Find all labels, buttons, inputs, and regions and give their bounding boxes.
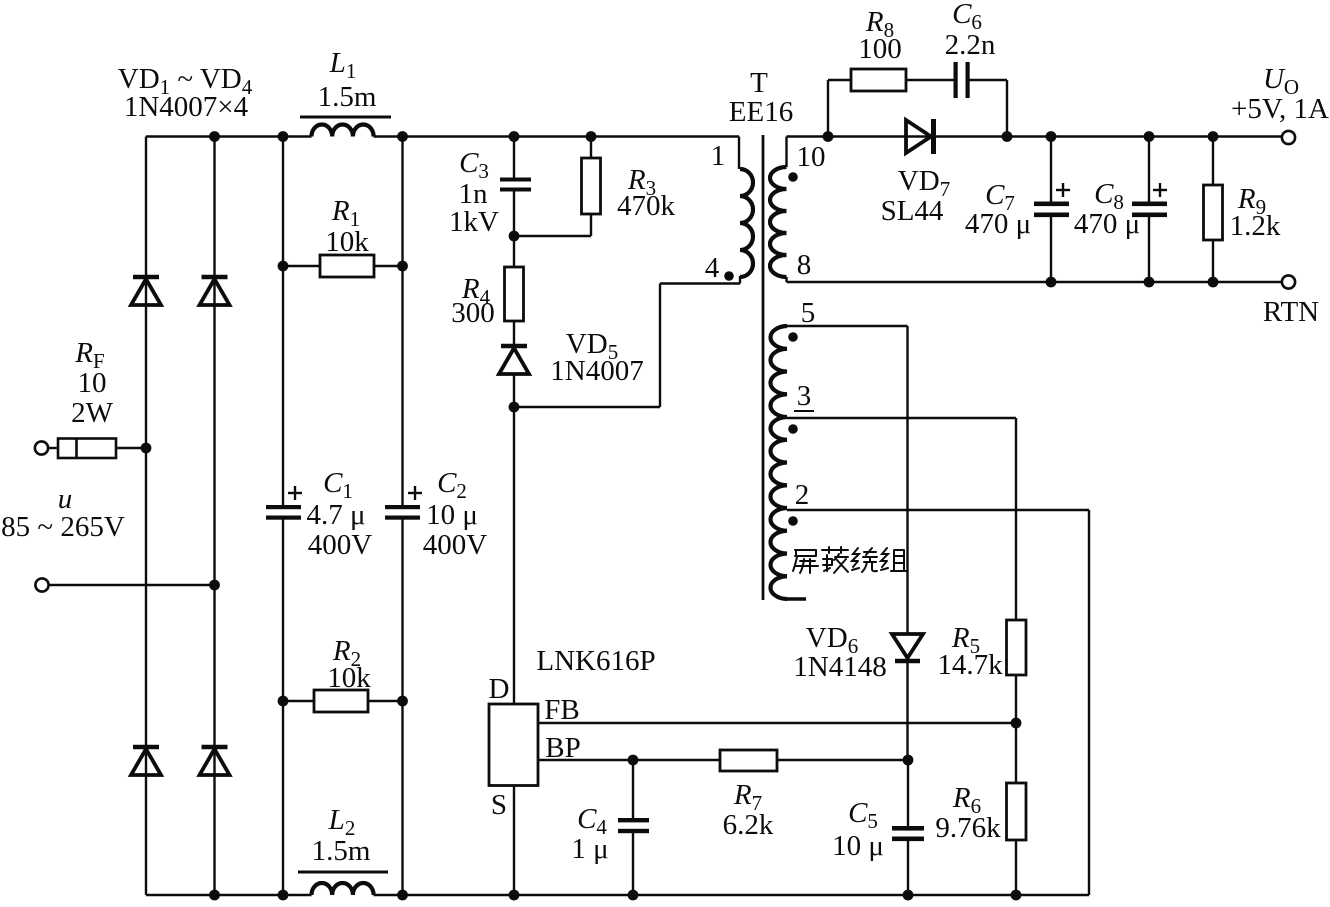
wire shield winding open end bbox=[787, 597, 806, 601]
wire pin5 tap bbox=[787, 325, 908, 327]
svg-text:400V: 400V bbox=[308, 529, 373, 561]
junction R2 left bbox=[278, 696, 289, 707]
svg-text:470 μ: 470 μ bbox=[965, 208, 1031, 240]
svg-text:1N4148: 1N4148 bbox=[793, 651, 886, 683]
capacitor C8 bottom plate bbox=[1132, 213, 1167, 218]
wire R1 right lead bbox=[374, 265, 403, 267]
junction BP / C4 bbox=[628, 755, 639, 766]
wire C4 bottom lead bbox=[632, 833, 634, 895]
resistor R8 bbox=[851, 69, 906, 91]
wire R6 top lead bbox=[1015, 723, 1017, 783]
wire C1 rail upper bbox=[282, 137, 284, 508]
phase dot pin 4 bbox=[724, 271, 734, 281]
capacitor C5 top plate bbox=[892, 826, 924, 831]
svg-text:1.2k: 1.2k bbox=[1230, 210, 1281, 242]
terminal output RTN bbox=[1282, 275, 1295, 288]
svg-text:D: D bbox=[489, 673, 510, 705]
junction C8 top bbox=[1144, 131, 1155, 142]
junction C5 / bottom rail bbox=[903, 890, 914, 901]
wire fuse to bridge node bbox=[116, 447, 146, 449]
inductor L2 core line bbox=[298, 871, 388, 874]
wire R2 left lead bbox=[283, 700, 314, 702]
IC U1 LNK616P body bbox=[489, 704, 538, 786]
wire R9 bottom lead bbox=[1212, 240, 1214, 282]
capacitor C1 bottom plate bbox=[266, 516, 301, 520]
wire R7 to node bbox=[777, 759, 908, 761]
wire bridge right leg bbox=[213, 137, 215, 896]
underline of pin 3 bbox=[794, 410, 814, 412]
svg-text:85 ~ 265V: 85 ~ 265V bbox=[1, 511, 125, 543]
svg-text:14.7k: 14.7k bbox=[937, 649, 1003, 681]
wire R5 bottom lead bbox=[1015, 675, 1017, 723]
wire VD5 to node bbox=[513, 374, 515, 407]
diode VD5 bbox=[499, 346, 529, 374]
resistor R1 bbox=[320, 255, 374, 277]
wire R3 bottom to node bbox=[514, 235, 591, 237]
terminal input live bbox=[35, 441, 48, 454]
junction BP / C5 / VD6 bbox=[903, 755, 914, 766]
wire drain lead down to LNK616P D bbox=[513, 407, 515, 704]
junction C4 / bottom rail bbox=[628, 890, 639, 901]
wire bottom rail right of L2 bbox=[374, 894, 1090, 896]
polarity + of C2 bbox=[408, 486, 422, 500]
label shield winding (Chinese: ping bi rao zu) bbox=[793, 547, 907, 573]
resistor R3 bbox=[582, 158, 601, 214]
wire input live to fuse bbox=[48, 447, 58, 449]
svg-text:10: 10 bbox=[797, 141, 826, 173]
junction R6 / bottom rail bbox=[1011, 890, 1022, 901]
svg-text:10 μ: 10 μ bbox=[832, 830, 884, 862]
wire pin4 winding jog bbox=[739, 276, 741, 284]
capacitor C3 top plate bbox=[500, 178, 531, 182]
svg-text:400V: 400V bbox=[423, 529, 488, 561]
wire C8 bottom lead bbox=[1148, 217, 1150, 282]
phase dot pin 5 bbox=[788, 332, 798, 342]
junction snubber right bbox=[1002, 131, 1013, 142]
capacitor C4 top plate bbox=[618, 818, 649, 822]
wire node to pin4 horizontal bbox=[514, 406, 660, 408]
wire pin5 riser to VD6 bbox=[906, 326, 908, 634]
junction top rail / bridge right bbox=[209, 131, 220, 142]
wire pin2 tap bbox=[787, 509, 1089, 511]
diode VD7 bbox=[906, 119, 934, 154]
transformer auxiliary winding (pins 5-3-2) and shield winding bbox=[771, 326, 787, 599]
resistor R2 bbox=[314, 690, 368, 712]
junction C8 bottom bbox=[1144, 277, 1155, 288]
wire top rail left of L1 bbox=[146, 135, 312, 137]
junction bottom rail / C1 rail bbox=[278, 890, 289, 901]
junction S / bottom rail bbox=[509, 890, 520, 901]
svg-text:9.76k: 9.76k bbox=[935, 812, 1001, 844]
diode VD1 bbox=[131, 277, 161, 305]
svg-text:2.2n: 2.2n bbox=[945, 29, 996, 61]
capacitor C3 bottom plate bbox=[500, 188, 531, 192]
wire pin3 tap bbox=[787, 417, 1016, 419]
wire snubber right riser bbox=[1006, 80, 1008, 137]
svg-text:10: 10 bbox=[78, 367, 107, 399]
svg-text:FB: FB bbox=[544, 694, 579, 726]
wire secondary pin10 lead bbox=[785, 137, 787, 168]
svg-text:10k: 10k bbox=[327, 662, 371, 694]
diode VD2 bbox=[200, 277, 230, 305]
junction top rail / C3 bbox=[509, 131, 520, 142]
wire input neutral to bridge bbox=[49, 584, 215, 586]
wire pin4 vertical bbox=[659, 284, 661, 408]
junction FB / R5 / R6 bbox=[1011, 718, 1022, 729]
svg-text:RTN: RTN bbox=[1263, 296, 1319, 328]
wire C4 top lead bbox=[632, 760, 634, 818]
svg-text:LNK616P: LNK616P bbox=[536, 645, 655, 677]
wire node to R4 bbox=[513, 236, 515, 267]
terminal output +5V bbox=[1282, 131, 1295, 144]
inductor L1 core line bbox=[300, 116, 391, 119]
wire C4 to R7 bbox=[633, 759, 720, 761]
transformer core bbox=[762, 135, 765, 600]
polarity + of C7 bbox=[1056, 183, 1070, 197]
resistor R9 bbox=[1204, 185, 1223, 240]
wire C1 rail lower bbox=[282, 518, 284, 896]
svg-text:T: T bbox=[750, 67, 768, 99]
svg-text:2: 2 bbox=[795, 479, 810, 511]
capacitor C7 top plate bbox=[1034, 202, 1069, 207]
wire RTN rail bbox=[787, 281, 1283, 283]
wire C5 top lead bbox=[907, 760, 909, 826]
wire R6 bottom lead bbox=[1015, 840, 1017, 895]
inductor L2 bbox=[312, 883, 374, 895]
capacitor C6 right plate bbox=[966, 62, 970, 98]
svg-text:1.5m: 1.5m bbox=[312, 835, 371, 867]
wire C3 top lead bbox=[513, 137, 515, 181]
junction bottom rail / bridge right bbox=[209, 890, 220, 901]
svg-text:3: 3 bbox=[797, 380, 812, 412]
svg-text:10 μ: 10 μ bbox=[426, 499, 478, 531]
capacitor C2 bottom plate bbox=[385, 516, 420, 520]
svg-text:1.5m: 1.5m bbox=[318, 81, 377, 113]
wire VD6 to BP node bbox=[906, 661, 908, 760]
svg-text:5: 5 bbox=[801, 297, 816, 329]
wire bridge left leg bbox=[145, 137, 147, 896]
capacitor C8 top plate bbox=[1132, 202, 1167, 207]
wire C3 bottom lead bbox=[513, 192, 515, 237]
junction top rail / C1 rail bbox=[278, 131, 289, 142]
svg-text:470 μ: 470 μ bbox=[1074, 208, 1140, 240]
junction R1 left bbox=[278, 261, 289, 272]
wire pin2 drop to bottom rail bbox=[1088, 510, 1090, 895]
resistor R7 bbox=[720, 750, 777, 771]
junction snubber left bbox=[823, 131, 834, 142]
svg-text:1: 1 bbox=[711, 140, 726, 172]
capacitor C6 left plate bbox=[954, 62, 958, 98]
wire C8 top lead bbox=[1148, 137, 1150, 203]
svg-text:1kV: 1kV bbox=[449, 206, 499, 238]
diode VD6 bbox=[892, 634, 923, 661]
junction R9 top bbox=[1208, 131, 1219, 142]
svg-text:+5V, 1A: +5V, 1A bbox=[1231, 93, 1329, 125]
diode VD3 bbox=[131, 747, 161, 775]
capacitor C4 bottom plate bbox=[618, 829, 649, 833]
junction top rail / R3 bbox=[586, 131, 597, 142]
svg-text:S: S bbox=[491, 789, 507, 821]
wire C5 bottom lead bbox=[907, 841, 909, 895]
wire R8 to C6 bbox=[906, 79, 954, 81]
svg-text:10k: 10k bbox=[325, 226, 369, 258]
resistor R5 bbox=[1007, 620, 1027, 675]
svg-text:2W: 2W bbox=[71, 397, 114, 429]
svg-text:4: 4 bbox=[705, 252, 720, 284]
transformer primary winding (pins 1-4) bbox=[740, 169, 753, 277]
capacitor C1 top plate bbox=[266, 505, 301, 509]
wire snubber to R8 bbox=[828, 79, 851, 81]
svg-text:470k: 470k bbox=[617, 190, 676, 222]
wire C2 rail upper bbox=[401, 137, 403, 508]
resistor R6 bbox=[1007, 783, 1027, 840]
resistor R4 bbox=[505, 267, 524, 321]
wire secondary top rail bbox=[787, 135, 1283, 137]
wire snubber left riser bbox=[827, 80, 829, 137]
wire R1 left lead bbox=[283, 265, 320, 267]
wire R3 bottom lead bbox=[590, 214, 592, 236]
wire bottom rail left of L2 bbox=[146, 894, 312, 896]
wire R4 to VD5 bbox=[513, 321, 515, 346]
fusible resistor RF bbox=[58, 439, 116, 459]
wire top rail right of L1 bbox=[374, 135, 740, 137]
junction bottom rail / C2 rail bbox=[397, 890, 408, 901]
polarity + of C1 bbox=[288, 486, 302, 500]
inductor L1 bbox=[312, 125, 374, 137]
wire C2 rail lower bbox=[401, 518, 403, 896]
junction neutral / bridge right leg bbox=[209, 580, 220, 591]
svg-text:300: 300 bbox=[451, 297, 495, 329]
wire R5 top lead bbox=[1015, 418, 1017, 620]
junction RF / bridge left leg bbox=[141, 443, 152, 454]
diode VD4 bbox=[200, 747, 230, 775]
transformer secondary winding (pins 10-8) bbox=[770, 167, 787, 277]
wire secondary pin8 lead bbox=[785, 277, 787, 282]
terminal input neutral bbox=[35, 578, 48, 591]
junction C7 top bbox=[1046, 131, 1057, 142]
svg-text:1N4007×4: 1N4007×4 bbox=[124, 91, 249, 123]
wire pin4 horizontal to transformer bbox=[660, 282, 740, 284]
svg-text:100: 100 bbox=[858, 33, 902, 65]
wire BP to C4 bbox=[538, 759, 633, 761]
phase dot pin 3 bbox=[788, 424, 798, 434]
wire R2 right lead bbox=[368, 700, 403, 702]
wire C7 top lead bbox=[1050, 137, 1052, 203]
junction top rail / C2 rail bbox=[397, 131, 408, 142]
svg-text:SL44: SL44 bbox=[881, 195, 944, 227]
node C3/R3 junction bbox=[509, 231, 520, 242]
polarity + of C8 bbox=[1153, 183, 1167, 197]
svg-text:6.2k: 6.2k bbox=[723, 809, 774, 841]
capacitor C7 bottom plate bbox=[1034, 213, 1069, 218]
capacitor C2 top plate bbox=[385, 505, 420, 509]
wire FB bbox=[538, 722, 1016, 724]
svg-text:8: 8 bbox=[797, 249, 812, 281]
svg-text:1N4007: 1N4007 bbox=[550, 355, 643, 387]
junction R2 right bbox=[397, 696, 408, 707]
junction R9 bottom bbox=[1208, 277, 1219, 288]
phase dot pin 2 bbox=[788, 516, 798, 526]
wire LNK616P S lead bbox=[513, 786, 515, 896]
wire C6 to corner bbox=[970, 79, 1008, 81]
junction R1 right bbox=[397, 261, 408, 272]
wire R3 top lead bbox=[590, 137, 592, 159]
wire C7 bottom lead bbox=[1050, 217, 1052, 282]
node VD5 / drain junction bbox=[509, 402, 520, 413]
svg-text:4.7 μ: 4.7 μ bbox=[306, 499, 365, 531]
phase dot pin 10 bbox=[788, 172, 798, 182]
junction C7 bottom bbox=[1046, 277, 1057, 288]
wire R9 top lead bbox=[1212, 137, 1214, 186]
svg-text:1 μ: 1 μ bbox=[571, 833, 608, 865]
wire primary pin1 lead bbox=[738, 137, 740, 170]
capacitor C5 bottom plate bbox=[892, 837, 924, 842]
svg-text:EE16: EE16 bbox=[729, 96, 793, 128]
